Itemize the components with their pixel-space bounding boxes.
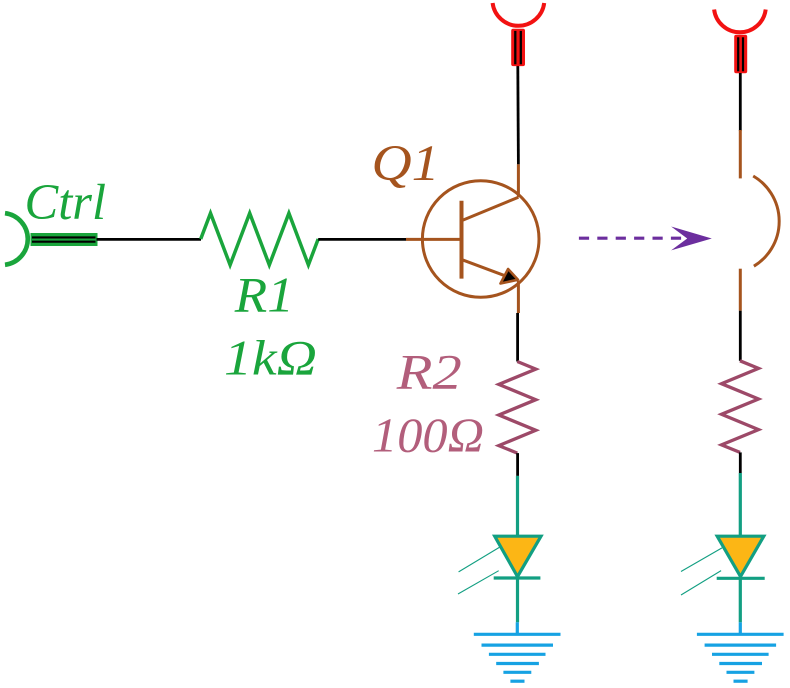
- wire: emitter to R2 (black): [516, 313, 519, 362]
- wire: V+ to collector (black): [516, 65, 519, 164]
- wire: R2 to LED (black): [516, 453, 519, 476]
- svg-text:R1: R1: [234, 267, 294, 323]
- wire: V+ to switch (black, right): [739, 73, 742, 131]
- svg-text:1kΩ: 1kΩ: [224, 330, 317, 386]
- transistor Q1: [422, 181, 539, 298]
- ground GND2 (right): [697, 622, 784, 681]
- wire: to LED anode (teal): [516, 476, 519, 536]
- wire: Q1 base lead (brown): [406, 238, 460, 241]
- wire: collector lead (brown): [517, 164, 520, 197]
- wire: LED cathode to ground (teal, right): [739, 578, 742, 622]
- svg-text:100Ω: 100Ω: [372, 408, 484, 463]
- svg-text:Ctrl: Ctrl: [25, 175, 107, 231]
- power terminal V+ right (red socket): [714, 10, 766, 74]
- wire: to LED anode (teal, right): [739, 473, 742, 536]
- connector J1 "Ctrl" female socket: [5, 213, 98, 265]
- resistor R1: [201, 213, 319, 265]
- resistor R3 (right): [722, 361, 759, 453]
- svg-text:Q1: Q1: [372, 136, 440, 192]
- wire: to R3 (black, right): [739, 311, 742, 361]
- power terminal V+ left (red socket): [493, 3, 545, 66]
- wire: LED cathode to ground (teal): [516, 578, 519, 622]
- ground GND1: [474, 622, 561, 681]
- LED D1: [458, 536, 541, 594]
- wire: switch bottom lead (brown, right): [739, 269, 742, 311]
- svg-text:R2: R2: [396, 344, 462, 400]
- arrow: equivalence (purple dashed): [579, 227, 712, 251]
- wire: R1 to Q1 base (black): [318, 238, 406, 241]
- switch: closed-transistor arc (brown, right): [753, 176, 779, 266]
- wire: emitter lead (brown): [517, 281, 520, 313]
- wire: R3 to LED (black, right): [739, 452, 742, 473]
- resistor R2: [499, 362, 536, 454]
- LED D2 (right): [681, 536, 765, 595]
- wire: switch top lead (brown, right): [739, 130, 742, 178]
- wire: Ctrl to R1 (black): [97, 238, 202, 241]
